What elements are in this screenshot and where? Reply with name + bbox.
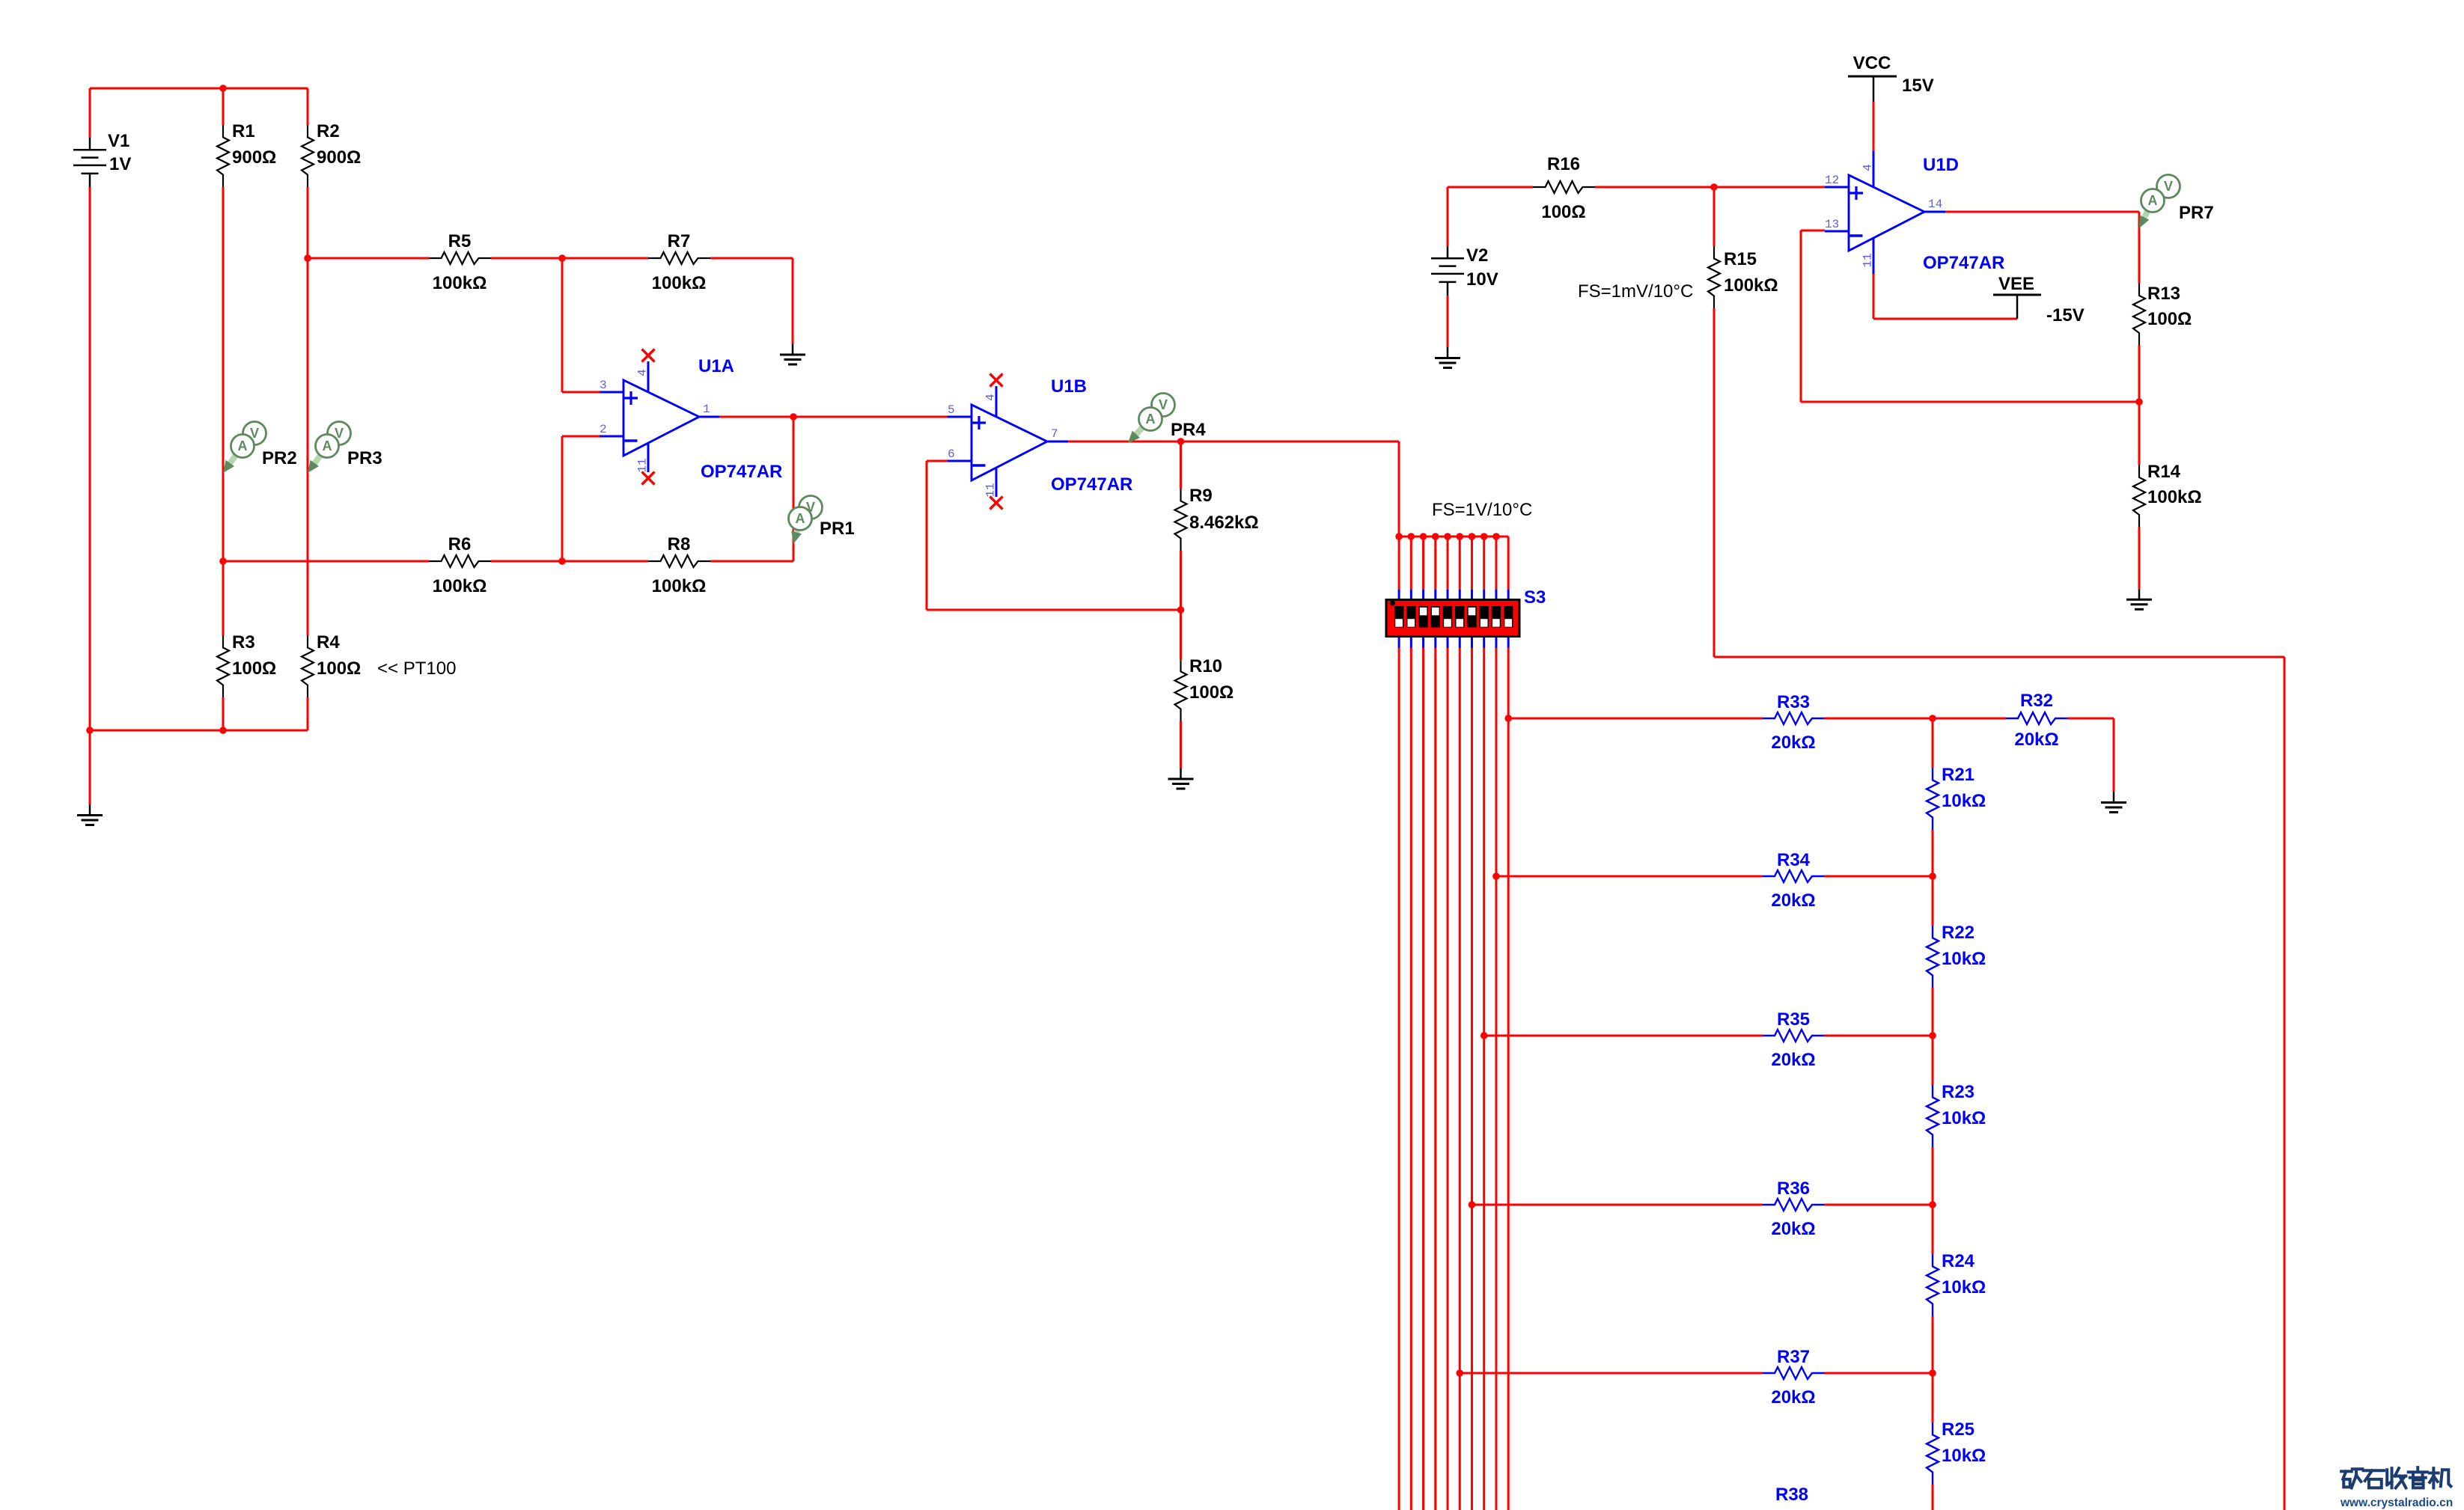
svg-text:10kΩ: 10kΩ <box>1942 1446 1986 1466</box>
svg-text:R22: R22 <box>1942 923 1974 943</box>
svg-text:VEE: VEE <box>1998 274 2034 294</box>
svg-text:100kΩ: 100kΩ <box>433 576 487 596</box>
svg-text:100Ω: 100Ω <box>317 658 361 679</box>
svg-text:PR2: PR2 <box>262 448 297 468</box>
svg-text:20kΩ: 20kΩ <box>1771 1387 1815 1407</box>
svg-text:100kΩ: 100kΩ <box>1724 275 1778 296</box>
svg-text:R5: R5 <box>448 231 472 251</box>
svg-text:10kΩ: 10kΩ <box>1942 1277 1986 1297</box>
svg-text:900Ω: 900Ω <box>317 147 361 168</box>
svg-text:15V: 15V <box>1902 76 1934 96</box>
svg-text:14: 14 <box>1928 198 1942 211</box>
svg-text:A: A <box>2148 193 2158 208</box>
svg-text:20kΩ: 20kΩ <box>1771 733 1815 753</box>
svg-text:R6: R6 <box>448 534 472 554</box>
svg-text:S3: S3 <box>1524 587 1546 608</box>
svg-text:100kΩ: 100kΩ <box>2147 487 2202 507</box>
svg-text:11: 11 <box>984 483 998 497</box>
svg-text:V: V <box>1159 397 1168 412</box>
svg-text:A: A <box>796 511 805 526</box>
svg-text:R25: R25 <box>1942 1419 1974 1440</box>
svg-text:OP747AR: OP747AR <box>701 462 782 482</box>
svg-text:11: 11 <box>636 458 650 472</box>
svg-text:20kΩ: 20kΩ <box>1771 1050 1815 1070</box>
svg-text:U1D: U1D <box>1923 155 1959 175</box>
svg-text:R13: R13 <box>2147 284 2180 304</box>
svg-text:100Ω: 100Ω <box>232 658 276 679</box>
svg-text:3: 3 <box>600 379 607 392</box>
svg-text:R10: R10 <box>1189 656 1222 676</box>
svg-text:R14: R14 <box>2147 462 2181 482</box>
svg-text:4: 4 <box>1861 164 1875 171</box>
svg-text:R7: R7 <box>668 231 691 251</box>
svg-text:FS=1mV/10°C: FS=1mV/10°C <box>1578 281 1693 302</box>
svg-text:100kΩ: 100kΩ <box>652 576 707 596</box>
svg-text:10kΩ: 10kΩ <box>1942 949 1986 969</box>
svg-text:R9: R9 <box>1189 486 1213 506</box>
svg-text:20kΩ: 20kΩ <box>1771 1219 1815 1239</box>
svg-text:12: 12 <box>1825 174 1839 187</box>
svg-text:7: 7 <box>1051 427 1058 441</box>
svg-text:R35: R35 <box>1777 1009 1810 1030</box>
svg-text:R32: R32 <box>2020 691 2053 711</box>
svg-text:V1: V1 <box>108 131 129 151</box>
svg-text:R33: R33 <box>1777 692 1810 712</box>
svg-text:2: 2 <box>600 423 607 436</box>
svg-text:R34: R34 <box>1777 850 1811 870</box>
svg-text:8.462kΩ: 8.462kΩ <box>1189 513 1259 533</box>
svg-text:OP747AR: OP747AR <box>1051 474 1132 495</box>
svg-text:R4: R4 <box>317 632 340 652</box>
svg-text:4: 4 <box>984 394 998 401</box>
svg-text:100Ω: 100Ω <box>1541 202 1585 222</box>
svg-text:A: A <box>238 438 248 453</box>
svg-text:PR3: PR3 <box>347 448 382 468</box>
svg-text:OP747AR: OP747AR <box>1923 253 2004 273</box>
svg-text:20kΩ: 20kΩ <box>1771 890 1815 911</box>
svg-text:-15V: -15V <box>2046 305 2085 325</box>
svg-text:900Ω: 900Ω <box>232 147 276 168</box>
svg-text:R8: R8 <box>668 534 691 554</box>
svg-text:100Ω: 100Ω <box>2147 309 2192 329</box>
svg-text:1: 1 <box>703 403 710 416</box>
svg-text:R16: R16 <box>1547 154 1580 174</box>
svg-text:V2: V2 <box>1466 245 1488 266</box>
svg-text:4: 4 <box>636 369 650 376</box>
svg-text:1V: 1V <box>109 154 131 174</box>
svg-text:R15: R15 <box>1724 249 1757 269</box>
svg-text:11: 11 <box>1861 253 1875 267</box>
svg-text:PR1: PR1 <box>820 519 855 539</box>
svg-text:100Ω: 100Ω <box>1189 682 1233 703</box>
svg-text:5: 5 <box>948 403 955 417</box>
svg-text:R2: R2 <box>317 121 340 141</box>
svg-text:13: 13 <box>1825 218 1839 231</box>
svg-text:A: A <box>1146 412 1156 427</box>
svg-text:www.crystalradio.cn: www.crystalradio.cn <box>2340 1497 2453 1509</box>
svg-text:R37: R37 <box>1777 1347 1810 1367</box>
svg-text:PR7: PR7 <box>2179 203 2214 223</box>
svg-text:R36: R36 <box>1777 1179 1810 1199</box>
svg-text:R21: R21 <box>1942 765 1974 785</box>
svg-text:6: 6 <box>948 447 955 461</box>
svg-text:R1: R1 <box>232 121 255 141</box>
svg-text:10kΩ: 10kΩ <box>1942 791 1986 811</box>
svg-text:R38: R38 <box>1775 1485 1808 1505</box>
svg-text:U1B: U1B <box>1051 376 1087 397</box>
svg-text:R23: R23 <box>1942 1082 1974 1102</box>
svg-text:A: A <box>323 438 332 453</box>
svg-text:100kΩ: 100kΩ <box>433 273 487 293</box>
svg-text:10V: 10V <box>1466 269 1498 290</box>
svg-text:10kΩ: 10kΩ <box>1942 1108 1986 1128</box>
svg-text:VCC: VCC <box>1853 53 1891 73</box>
svg-text:R24: R24 <box>1942 1251 1975 1271</box>
svg-text:FS=1V/10°C: FS=1V/10°C <box>1432 500 1532 520</box>
svg-text:20kΩ: 20kΩ <box>2014 730 2058 750</box>
svg-text:U1A: U1A <box>698 356 734 376</box>
svg-text:100kΩ: 100kΩ <box>652 273 707 293</box>
svg-text:<< PT100: << PT100 <box>377 658 456 679</box>
svg-text:R3: R3 <box>232 632 255 652</box>
svg-text:PR4: PR4 <box>1171 420 1206 440</box>
svg-text:V: V <box>2164 179 2173 194</box>
